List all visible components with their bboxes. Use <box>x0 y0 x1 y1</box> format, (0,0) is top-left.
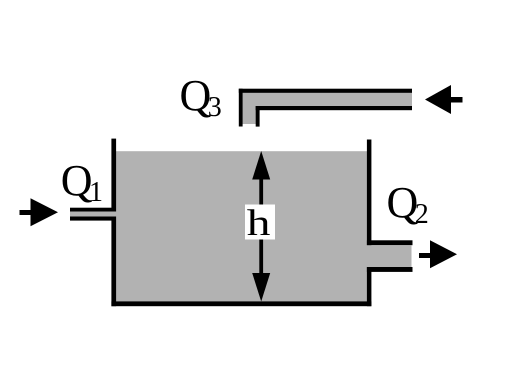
svg-text:Q1: Q1 <box>61 156 103 208</box>
svg-text:Q3: Q3 <box>180 71 222 123</box>
svg-text:Q2: Q2 <box>387 178 429 230</box>
svg-text:h: h <box>247 203 271 244</box>
